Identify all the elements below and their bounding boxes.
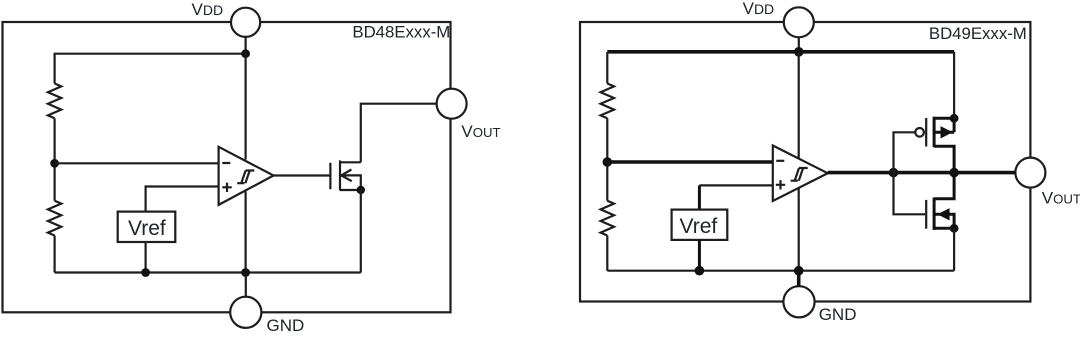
junction dot Q3 source [950, 224, 959, 233]
wire GND stub bold (right) [797, 271, 801, 287]
case border BD48 [3, 22, 451, 312]
Q3 body arrow [937, 208, 949, 220]
Q1 drain stub [340, 161, 361, 163]
Q2 source stub [934, 117, 954, 120]
op-amp U1 comparator triangle [219, 147, 274, 205]
wire inner top rail bold (right) [607, 50, 954, 54]
wire divider top lead (right) [606, 52, 608, 84]
junction dot Q2 source [950, 114, 959, 123]
resistor R1 [48, 84, 61, 119]
junction dot Q1 source-body [357, 186, 365, 194]
junction dot comparator output [889, 168, 899, 178]
U2 hysteresis mark [791, 168, 808, 181]
wire R3 to R4 through divider node (right) [606, 118, 608, 200]
wire non-inverting input (right) [699, 184, 772, 186]
Q3 source stub [934, 227, 954, 230]
VOUT pin circle (right) [1015, 158, 1045, 188]
wire R4 to bottom rail (right) [606, 236, 608, 271]
wire gate Q1 [274, 174, 331, 176]
wire comparator ground (left) [245, 192, 247, 273]
Vref box (left) [118, 212, 176, 242]
svg-text:GND: GND [819, 305, 857, 324]
Q2 gate bubble [915, 128, 924, 137]
Q1 source stub [340, 189, 361, 191]
Q1 body stub with arrow [341, 170, 361, 191]
wire VDD stub to rail [245, 37, 247, 54]
wire output bold to VOUT [828, 171, 1016, 175]
Vref box (right) [672, 210, 728, 240]
junction dot VDD rail (right) [794, 47, 804, 57]
junction dot VDD rail [241, 49, 250, 58]
resistor R3 [601, 84, 614, 119]
wire inverting input bold (right) [607, 160, 773, 164]
wire GND stub [245, 273, 247, 298]
wire gate riser up (right) [894, 132, 916, 172]
VDD pin circle (left) [231, 8, 260, 37]
junction dot Vref ground [141, 268, 150, 277]
svg-text:VOUT: VOUT [461, 122, 500, 141]
junction dot divider node [50, 159, 59, 168]
svg-text:VOUT: VOUT [1042, 188, 1080, 207]
op-amp U2 comparator triangle [773, 146, 828, 202]
Q3 channel bar [933, 198, 936, 230]
junction dot Vref ground (right) [695, 266, 705, 276]
case border BD49 [580, 22, 1030, 302]
Q1 channel bar [339, 160, 341, 190]
svg-text:BD48Exxx-M: BD48Exxx-M [352, 23, 450, 42]
GND pin circle (right) [783, 286, 814, 317]
U1 minus sign [222, 162, 230, 164]
wire inner top rail [55, 54, 246, 84]
junction dot output node [949, 168, 959, 178]
wire VDD to Q2 source [953, 52, 955, 119]
wire gate riser down (right) [894, 173, 926, 215]
resistor R4 [601, 201, 614, 236]
Q2 body stub [934, 118, 954, 132]
Q1 drain wire to VOUT [361, 104, 437, 163]
GND pin circle (left) [230, 297, 261, 328]
svg-text:Vref: Vref [128, 217, 166, 240]
U1 plus sign [222, 183, 231, 192]
wire Vref top to non-inverting input [146, 187, 219, 212]
Q3 gate bar [925, 200, 927, 229]
VOUT pin circle (left) [437, 89, 467, 119]
wire R1 to R2 through divider node [53, 118, 55, 200]
Q1 gate bar [329, 163, 331, 189]
wire comparator ground (right) [798, 189, 800, 271]
svg-text:BD49Exxx-M: BD49Exxx-M [929, 24, 1027, 43]
wire bottom rail (left) [55, 271, 361, 273]
svg-text:Vref: Vref [680, 215, 718, 238]
U1 hysteresis mark [237, 171, 254, 184]
svg-text:GND: GND [267, 316, 305, 333]
svg-text:VDD: VDD [743, 0, 775, 18]
junction dot divider node (right) [603, 157, 613, 167]
Q3 source wire to ground rail [953, 228, 955, 270]
wire comparator supply (left) [245, 54, 247, 160]
junction dot comparator ground (right) [794, 266, 804, 276]
resistor R2 [48, 201, 61, 236]
Q2 gate bar [925, 118, 927, 147]
svg-text:VDD: VDD [192, 0, 224, 19]
U2 plus sign [776, 180, 785, 189]
Q3 drain stub [934, 173, 954, 199]
Q3 body stub [934, 214, 954, 228]
Q2 body arrow [941, 126, 953, 138]
wire Vref top bold (right) [698, 185, 701, 209]
Q1 source wire to ground rail [360, 190, 362, 273]
wire Vref bottom [145, 242, 147, 273]
Q2 drain stub [934, 146, 954, 172]
junction dot comparator ground [241, 268, 250, 277]
Q2 channel bar [933, 117, 936, 148]
wire inverting input (left) [55, 162, 219, 164]
wire Vref bottom bold (right) [698, 240, 701, 271]
wire R2 to bottom rail [53, 236, 55, 273]
wire comparator supply (right) [798, 52, 800, 158]
wire VDD stub to rail (right) [798, 37, 800, 52]
wire bottom rail (right) [607, 270, 954, 272]
U2 minus sign [776, 160, 784, 162]
VDD pin circle (right) [784, 7, 814, 37]
